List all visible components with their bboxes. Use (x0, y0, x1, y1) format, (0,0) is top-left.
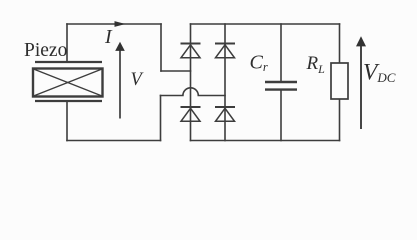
piezo crystal X diagonal 2 (34, 69, 103, 96)
diode D4 (bridge lower-right) (215, 107, 235, 121)
voltage arrow V (across piezo) (115, 42, 125, 119)
svg-text:Piezo: Piezo (24, 40, 67, 61)
wire: hop wire from node B over left branch to right branch (161, 88, 226, 96)
output voltage arrow VDC (356, 36, 366, 129)
svg-text:Cr: Cr (250, 51, 268, 74)
wire: bridge/DC bottom rail (191, 140, 340, 142)
piezo transducer element (33, 62, 103, 101)
wire: mid vertical from bottom wire up to AC node B (160, 96, 162, 141)
wire: left vertical above piezo (66, 24, 68, 61)
wire: resistor branch lower (339, 99, 341, 141)
current arrow I on top wire (115, 21, 126, 27)
piezo top electrode plate (35, 61, 102, 63)
wire: capacitor branch upper (280, 24, 282, 81)
diode D1 (bridge upper-left) (181, 44, 201, 58)
diode D3 (bridge lower-left) (181, 107, 201, 121)
wire: capacitor branch lower (280, 91, 282, 141)
diode D2 (bridge upper-right) (215, 44, 235, 58)
wire: bridge right branch vertical (224, 24, 226, 141)
svg-text:VDC: VDC (363, 60, 396, 86)
wire: mid vertical from top wire down to AC node A (160, 24, 162, 71)
resistor RL body (331, 63, 348, 99)
capacitor Cr plates (265, 82, 297, 90)
wire: resistor branch upper (339, 24, 341, 63)
wire: bridge/DC top rail (191, 23, 340, 25)
piezo crystal box (33, 69, 103, 97)
wire: left vertical below piezo (66, 102, 68, 141)
wire: piezo top wire (67, 23, 161, 25)
svg-text:V: V (131, 70, 145, 90)
piezo bottom electrode plate (35, 100, 102, 102)
wire: horizontal into left bridge branch (node A) (161, 70, 191, 72)
piezo crystal X diagonal 1 (34, 69, 103, 96)
wire: bridge left branch vertical (190, 24, 192, 141)
svg-text:I: I (104, 26, 113, 48)
wire: bottom wire of piezo loop (67, 140, 161, 142)
svg-text:RL: RL (306, 53, 326, 76)
